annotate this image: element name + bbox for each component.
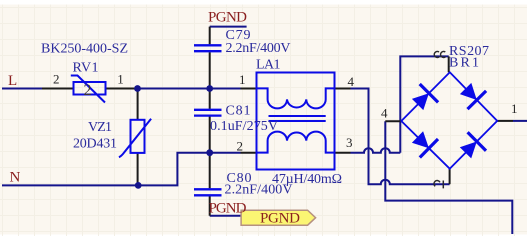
svg-text:RV1: RV1 [73,60,99,75]
svg-text:N: N [10,170,21,186]
svg-text:PGND: PGND [260,211,300,227]
svg-text:PGND: PGND [208,10,247,26]
svg-text:1: 1 [511,101,518,116]
svg-text:3: 3 [346,135,353,150]
svg-text:PGND: PGND [209,200,247,216]
svg-text:BR1: BR1 [449,56,479,71]
svg-text:2: 2 [53,71,60,86]
svg-text:20D431: 20D431 [73,137,117,152]
svg-text:0.1uF/275V: 0.1uF/275V [210,119,278,134]
svg-text:2: 2 [237,138,244,153]
svg-text:1: 1 [239,72,246,87]
svg-text:2.2nF/400V: 2.2nF/400V [226,41,291,56]
svg-text:L: L [8,73,17,89]
svg-text:47µH/40mΩ: 47µH/40mΩ [272,172,342,187]
svg-text:C81: C81 [226,103,251,118]
svg-text:LA1: LA1 [256,58,281,73]
svg-text:4: 4 [381,106,388,121]
svg-text:VZ1: VZ1 [88,120,112,135]
svg-text:1: 1 [117,71,124,86]
svg-text:4: 4 [348,74,355,89]
svg-text:2: 2 [84,82,92,99]
svg-text:BK250-400-SZ: BK250-400-SZ [41,42,128,57]
